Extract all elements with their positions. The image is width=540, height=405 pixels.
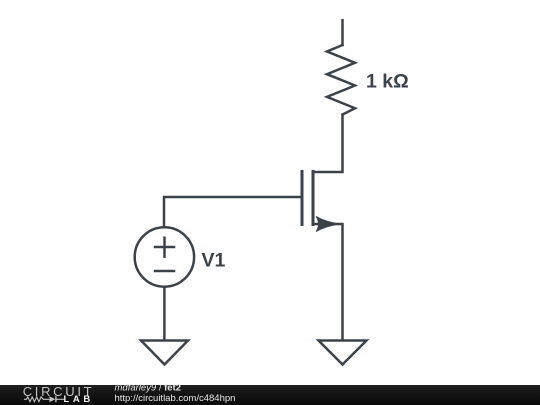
svg-text:http://circuitlab.com/c484hpn: http://circuitlab.com/c484hpn	[115, 393, 236, 404]
CircuitLab logo: resistor squiggle	[24, 397, 49, 402]
ground (right)	[319, 341, 367, 365]
svg-text:V1: V1	[202, 249, 226, 271]
voltage source V1 circle	[135, 227, 194, 286]
transistor M1 (NMOS) channel bar	[312, 172, 315, 225]
wire (resistor bottom to drain)	[313, 115, 343, 172]
wire (gate wire)	[164, 197, 301, 227]
svg-text:LAB: LAB	[64, 394, 94, 405]
voltage source V1 minus sign	[155, 270, 174, 273]
wire (source to ground)	[313, 224, 343, 340]
transistor M1 (NMOS) gate bar	[301, 172, 304, 225]
svg-text:1 kΩ: 1 kΩ	[366, 71, 409, 93]
ground (left)	[141, 341, 188, 365]
wire (top supply stub)	[341, 20, 344, 45]
resistor R1	[327, 45, 355, 115]
wire (V1 to ground)	[163, 287, 166, 340]
transistor M1 source arrow	[316, 216, 339, 231]
CircuitLab logo: diode symbol	[49, 396, 55, 402]
voltage source V1 plus sign	[155, 246, 174, 249]
